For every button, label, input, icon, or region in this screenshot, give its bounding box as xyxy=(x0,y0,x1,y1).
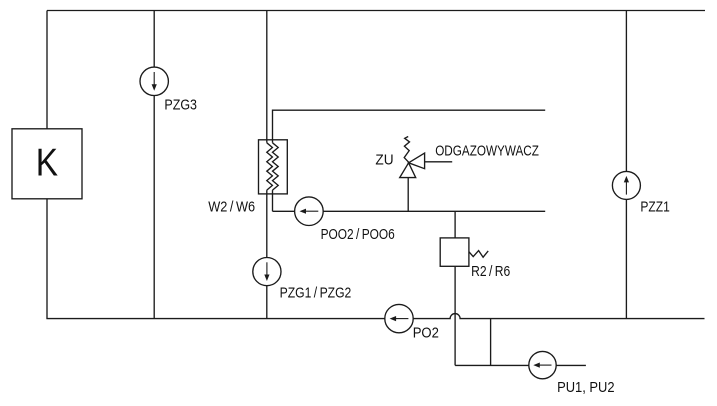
pump POO2/POO6 (left arrow) xyxy=(295,197,324,226)
regulator R2/R6 xyxy=(440,238,488,266)
svg-text:POO2 / POO6: POO2 / POO6 xyxy=(321,226,395,243)
valve up triangle xyxy=(400,163,416,178)
sensor PZZ1 (up arrow) xyxy=(612,171,640,199)
relief valve ZU xyxy=(400,137,425,178)
wire left K riser upper xyxy=(46,11,48,129)
svg-text:R2 / R6: R2 / R6 xyxy=(471,263,510,280)
valve spring xyxy=(404,137,409,163)
boiler K xyxy=(12,129,82,199)
svg-text:ZU: ZU xyxy=(375,152,393,169)
svg-text:PZG3: PZG3 xyxy=(164,96,197,113)
svg-text:ODGAZOWYWACZ: ODGAZOWYWACZ xyxy=(435,142,539,159)
R2/R6 spring squiggle xyxy=(469,251,488,258)
sensor PZG1/PZG2 (down arrow) xyxy=(253,258,281,286)
svg-text:PZZ1: PZZ1 xyxy=(640,199,669,216)
wire left K riser lower xyxy=(46,199,48,319)
svg-text:W2 / W6: W2 / W6 xyxy=(208,198,255,215)
wire bottom return header (with hop over R2/R6 drop) xyxy=(46,314,704,319)
wire exchanger secondary branch: horizontal + drop xyxy=(273,110,546,143)
svg-text:PO2: PO2 xyxy=(413,325,439,342)
sensor PZG3 (down arrow) xyxy=(140,67,168,95)
exchanger coil right xyxy=(273,143,279,190)
wire W2/W6 main riser xyxy=(266,11,268,143)
pump PO2 (left arrow) xyxy=(385,304,413,332)
valve right triangle xyxy=(409,153,425,169)
wire ZU valve drop xyxy=(407,178,409,212)
wire R2/R6 drop xyxy=(454,211,456,365)
wire bottom-to-PU link xyxy=(490,319,492,366)
svg-text:PU1, PU2: PU1, PU2 xyxy=(557,379,615,396)
wire PZZ1 riser xyxy=(625,11,627,319)
svg-text:K: K xyxy=(36,142,59,185)
wire PZG3 riser xyxy=(153,11,155,319)
heat exchanger W2/W6 xyxy=(259,140,288,194)
pump PU1/PU2 (left arrow) xyxy=(529,351,556,378)
wire POO2 line xyxy=(273,210,546,212)
wire ZU outlet to deaerator xyxy=(425,161,453,163)
wire PU suction line xyxy=(455,364,586,366)
exchanger coil left xyxy=(267,143,273,190)
svg-text:PZG1 / PZG2: PZG1 / PZG2 xyxy=(280,284,352,301)
wire top supply header xyxy=(47,10,705,12)
